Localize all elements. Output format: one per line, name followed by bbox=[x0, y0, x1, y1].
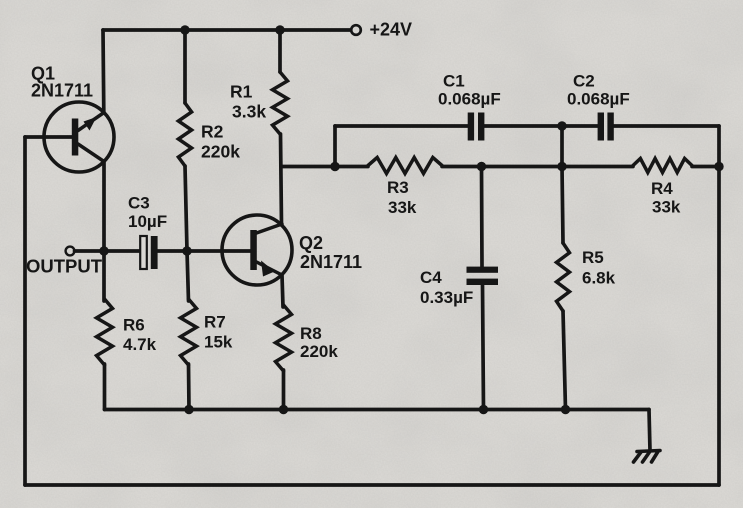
svg-text:C4: C4 bbox=[420, 268, 442, 287]
svg-text:6.8k: 6.8k bbox=[582, 269, 616, 288]
svg-text:R4: R4 bbox=[651, 179, 673, 198]
svg-text:R1: R1 bbox=[230, 82, 253, 102]
svg-text:R6: R6 bbox=[123, 316, 145, 335]
svg-text:0.068µF: 0.068µF bbox=[438, 90, 501, 109]
svg-text:+24V: +24V bbox=[370, 20, 413, 40]
svg-text:0.33µF: 0.33µF bbox=[420, 288, 473, 307]
svg-text:4.7k: 4.7k bbox=[123, 335, 157, 354]
svg-text:3.3k: 3.3k bbox=[232, 102, 266, 122]
svg-text:OUTPUT: OUTPUT bbox=[26, 256, 103, 277]
svg-text:R8: R8 bbox=[300, 324, 322, 343]
svg-text:R3: R3 bbox=[387, 178, 409, 197]
svg-text:2N1711: 2N1711 bbox=[300, 252, 362, 272]
svg-text:R7: R7 bbox=[204, 313, 226, 332]
svg-text:R2: R2 bbox=[201, 122, 224, 142]
svg-text:2N1711: 2N1711 bbox=[31, 81, 93, 101]
svg-text:10µF: 10µF bbox=[128, 212, 167, 231]
svg-text:C3: C3 bbox=[128, 194, 150, 213]
svg-text:Q2: Q2 bbox=[299, 233, 323, 253]
svg-text:R5: R5 bbox=[582, 248, 604, 267]
svg-text:C1: C1 bbox=[443, 72, 465, 91]
svg-text:220k: 220k bbox=[201, 142, 240, 162]
svg-text:220k: 220k bbox=[300, 342, 338, 361]
svg-text:15k: 15k bbox=[204, 333, 233, 352]
svg-text:33k: 33k bbox=[388, 198, 417, 217]
svg-text:0.068µF: 0.068µF bbox=[567, 90, 630, 109]
svg-text:C2: C2 bbox=[573, 72, 595, 91]
svg-text:33k: 33k bbox=[652, 198, 681, 217]
